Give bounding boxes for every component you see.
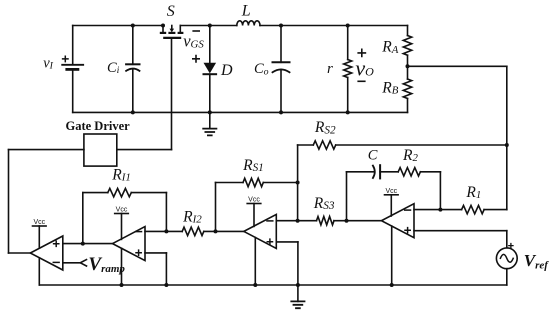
svg-text:Co: Co: [254, 61, 269, 77]
svg-text:Vramp: Vramp: [88, 254, 125, 275]
svg-text:RI2: RI2: [182, 208, 202, 225]
svg-text:R1: R1: [465, 184, 481, 201]
svg-text:C: C: [368, 148, 378, 164]
svg-text:R2: R2: [402, 147, 418, 164]
svg-text:RS2: RS2: [314, 119, 336, 136]
svg-text:Gate Driver: Gate Driver: [66, 119, 131, 133]
svg-text:Vcc: Vcc: [33, 219, 45, 226]
svg-text:r: r: [327, 61, 333, 77]
svg-text:RI1: RI1: [111, 166, 131, 183]
svg-text:L: L: [241, 2, 251, 19]
svg-text:RA: RA: [381, 39, 398, 56]
svg-text:RS1: RS1: [242, 157, 264, 174]
svg-text:RB: RB: [381, 79, 398, 96]
svg-text:Ci: Ci: [107, 60, 120, 76]
svg-text:RS3: RS3: [313, 195, 335, 212]
svg-text:vO: vO: [355, 56, 374, 81]
svg-text:Vcc: Vcc: [385, 188, 397, 195]
svg-text:D: D: [220, 62, 233, 79]
svg-text:S: S: [167, 3, 175, 20]
svg-text:vGS: vGS: [183, 31, 204, 50]
svg-text:Vcc: Vcc: [248, 197, 260, 204]
svg-text:Vref: Vref: [524, 251, 550, 272]
svg-text:vI: vI: [43, 55, 53, 71]
svg-text:Vcc: Vcc: [116, 207, 128, 214]
